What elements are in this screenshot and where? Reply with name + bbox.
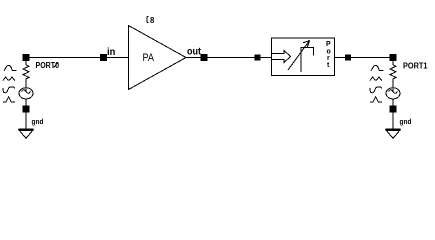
harmonic squiggle 4 (triangle peak) right xyxy=(370,97,382,102)
node square: amp input xyxy=(101,55,107,61)
svg-text:P: P xyxy=(326,41,331,48)
port P2 source symbol PORT1 xyxy=(370,66,384,103)
resistor of PORT1 xyxy=(390,61,396,81)
variable element bracket xyxy=(301,48,314,73)
attenuator / tuner box U1 xyxy=(272,38,335,76)
wire node to ground (right) xyxy=(392,112,394,130)
sine inside source (right) xyxy=(389,90,398,94)
wire source to node xyxy=(25,99,27,106)
node square above gnd (right) xyxy=(390,106,396,112)
hollow arrow inside box xyxy=(272,51,291,63)
variable arrow diagonal xyxy=(288,41,310,71)
harmonic squiggle 2 (double peak) right xyxy=(370,77,382,81)
port P1 source symbol PORT0 xyxy=(3,66,17,103)
ground symbol (right) xyxy=(386,129,401,131)
svg-text:PORT1: PORT1 xyxy=(403,61,428,70)
wire source to node (right) xyxy=(392,99,394,106)
AC source circle of PORT0 xyxy=(19,88,33,99)
sine inside source xyxy=(22,90,31,94)
node square: PORT1 pin xyxy=(390,55,396,61)
box outline xyxy=(272,38,335,76)
svg-text:PA: PA xyxy=(143,52,155,64)
designator I8 of amplifier xyxy=(147,17,149,23)
AC source circle of PORT1 xyxy=(386,88,400,99)
wire resistor to source circle (right) xyxy=(392,81,394,92)
svg-text:out: out xyxy=(187,46,201,58)
svg-text:in: in xyxy=(107,46,115,58)
op-amp / PA amplifier triangle I8 xyxy=(129,26,187,90)
ground symbol (left) xyxy=(19,129,34,131)
wire amp output xyxy=(186,57,272,59)
harmonic squiggle 2 (double peak) xyxy=(3,77,15,81)
svg-text:gnd: gnd xyxy=(400,119,412,126)
wire PORT0 to amp input xyxy=(29,57,128,59)
resistor of PORT0 xyxy=(23,61,29,81)
wire resistor to source circle xyxy=(25,81,27,92)
node square above gnd (left) xyxy=(23,106,29,112)
svg-text:r: r xyxy=(327,55,330,62)
svg-text:gnd: gnd xyxy=(32,119,44,126)
svg-text:8: 8 xyxy=(150,15,155,25)
slash of zero in PORT0 xyxy=(54,62,59,67)
node square: box input pin xyxy=(255,55,260,60)
harmonic squiggle 3 (sine) right xyxy=(370,87,381,93)
node square: amp output xyxy=(201,55,207,61)
wire node to ground xyxy=(25,112,27,130)
harmonic squiggle 1 (hump) xyxy=(4,66,17,72)
node square: box output pin xyxy=(346,55,351,60)
harmonic squiggle 3 (sine) xyxy=(3,87,14,93)
harmonic squiggle 1 (hump) right xyxy=(371,66,384,72)
harmonic squiggle 4 (triangle peak) xyxy=(3,97,15,102)
node square: PORT0 pin xyxy=(23,55,29,61)
wire box output to PORT1 xyxy=(335,57,394,59)
